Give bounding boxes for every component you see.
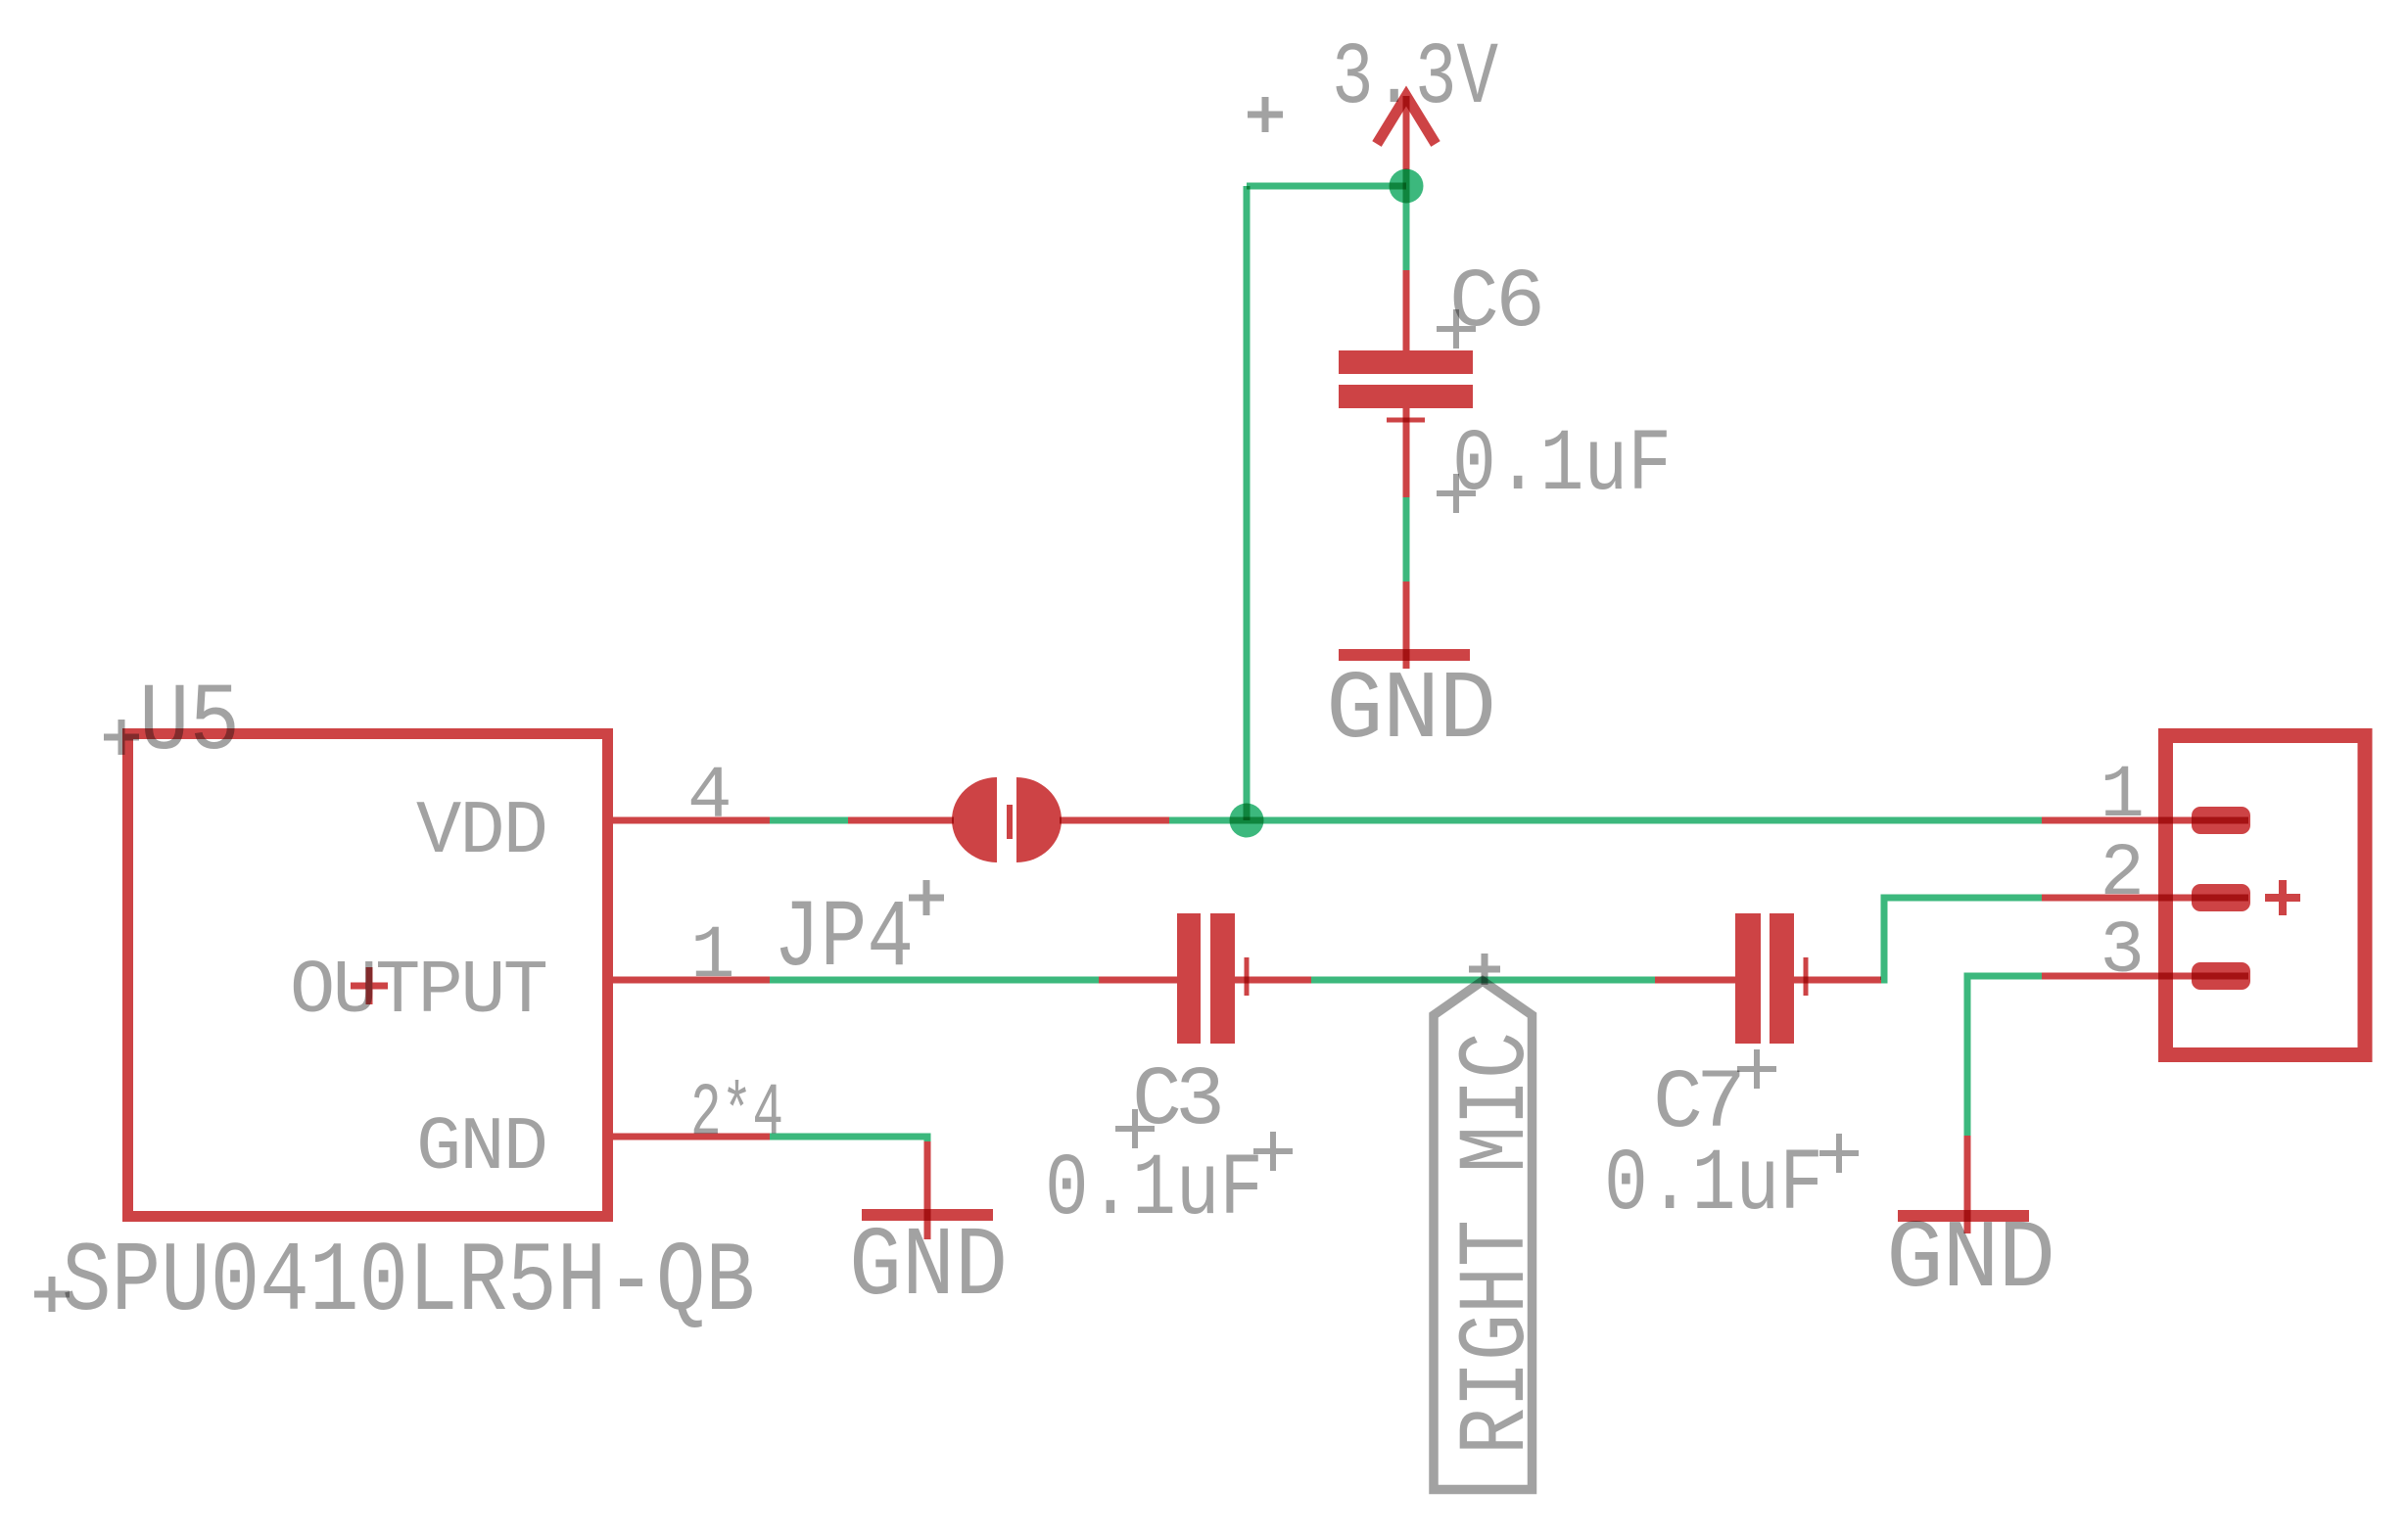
capacitor C3 plate 2: [1210, 913, 1235, 1044]
GND symbol bar (right): [1898, 1210, 2029, 1222]
capacitor C7 right pin: [1794, 977, 1881, 984]
connector pin 2: [2042, 895, 2248, 902]
jumper JP4 pin 1: [848, 817, 954, 824]
C3 name origin cross: [1115, 1109, 1155, 1148]
svg-text:2*4: 2*4: [690, 1072, 783, 1156]
svg-text:1: 1: [690, 914, 735, 999]
capacitor C6 pin tick: [1387, 418, 1425, 423]
junction dot at 3.3V: [1390, 169, 1424, 204]
capacitor C7 pin tick: [1804, 957, 1809, 996]
JP4 origin cross: [909, 880, 944, 915]
capacitor C7 left pin: [1655, 977, 1735, 984]
3.3V supply arrow: [1377, 96, 1436, 144]
C7 name origin cross: [1737, 1049, 1776, 1089]
net label origin cross: [1469, 954, 1500, 985]
GND symbol pin (C6): [1403, 581, 1410, 669]
junction dot on VDD row: [1230, 804, 1264, 838]
U5 value origin cross: [34, 1277, 70, 1312]
svg-text:GND: GND: [1326, 657, 1496, 766]
svg-text:C3: C3: [1132, 1053, 1225, 1148]
svg-text:3: 3: [2100, 909, 2145, 994]
capacitor C6 top pin: [1403, 270, 1410, 350]
svg-text:OUTPUT: OUTPUT: [290, 950, 548, 1035]
svg-text:GND: GND: [849, 1213, 1008, 1324]
C3 value origin cross: [1253, 1132, 1293, 1171]
net label RIGHT MIC flag: [1434, 981, 1533, 1490]
U5 pin 4 VDD: [613, 817, 770, 824]
C6 name origin cross: [1437, 309, 1476, 349]
U5 pin 1 OUTPUT: [613, 977, 770, 984]
svg-text:VDD: VDD: [416, 790, 548, 875]
U5 part origin cross: [351, 967, 388, 1004]
capacitor C3 left pin: [1099, 977, 1177, 984]
IC U5 box: [128, 734, 608, 1217]
connector box: [2166, 736, 2366, 1055]
3.3V supply stem: [1403, 96, 1410, 169]
svg-text:RIGHT MIC: RIGHT MIC: [1444, 1032, 1552, 1455]
connector pad 3: [2192, 962, 2250, 990]
wire C7 up to pin 2 row: [1881, 898, 2042, 980]
svg-text:2: 2: [2100, 832, 2145, 916]
capacitor C6 bottom pin: [1403, 408, 1410, 497]
capacitor C7 plate 2: [1770, 913, 1794, 1044]
svg-text:GND: GND: [1886, 1206, 2055, 1315]
U5 name origin cross: [104, 720, 139, 755]
capacitor C6 plate 2: [1339, 385, 1473, 408]
svg-text:0.1uF: 0.1uF: [1604, 1136, 1823, 1235]
connector pin 3: [2042, 973, 2248, 980]
wire VDD riser: [1244, 186, 1251, 820]
capacitor C6 plate 1: [1339, 350, 1473, 374]
svg-text:0.1uF: 0.1uF: [1452, 416, 1672, 516]
jumper JP4 center tick: [1007, 805, 1013, 839]
svg-text:3.3V: 3.3V: [1332, 29, 1498, 129]
wire C3 to C7: [1311, 977, 1655, 984]
wire VDD top horizontal: [1247, 183, 1406, 190]
GND symbol bar (C6): [1339, 649, 1470, 661]
svg-text:GND: GND: [416, 1106, 548, 1191]
wire pin3 to GND corner: [1967, 976, 2042, 1136]
jumper JP4 right half-disc: [1016, 777, 1062, 862]
GND symbol bar (U5): [862, 1209, 993, 1221]
wire pin 2*4 to GND corner: [770, 1137, 927, 1141]
connector pad 1: [2192, 807, 2250, 834]
wire pin1 to C3: [770, 977, 1099, 984]
U5 pin 2*4 GND: [613, 1134, 770, 1140]
wire pin4 to JP4: [770, 817, 848, 824]
capacitor C3 plate 1: [1177, 913, 1201, 1044]
wire C6 to GND symbol: [1403, 497, 1410, 581]
GND symbol pin (U5): [924, 1141, 931, 1239]
capacitor C7 plate 1: [1735, 913, 1761, 1044]
connector pad 2: [2192, 884, 2250, 911]
svg-text:U5: U5: [139, 670, 240, 777]
capacitor C3 right pin: [1235, 977, 1311, 984]
svg-text:4: 4: [687, 755, 732, 839]
C7 value origin cross: [1819, 1134, 1859, 1173]
connector plus mark: [2265, 880, 2300, 915]
GND symbol pin (right): [1964, 1136, 1971, 1233]
C6 value origin cross: [1437, 474, 1476, 513]
wire JP4 to connector pin 1: [1169, 817, 2042, 824]
wire junction to C6: [1403, 186, 1410, 270]
svg-text:C6: C6: [1449, 256, 1545, 350]
jumper JP4 pin 2: [1060, 817, 1169, 824]
capacitor C3 pin tick: [1245, 957, 1250, 996]
svg-text:SPU0410LR5H-QB: SPU0410LR5H-QB: [62, 1228, 755, 1339]
jumper JP4 left half-disc: [952, 777, 997, 862]
svg-text:0.1uF: 0.1uF: [1045, 1140, 1263, 1240]
wire stub to junction: [1403, 169, 1410, 186]
svg-text:1: 1: [2100, 754, 2145, 838]
3.3V origin cross: [1248, 97, 1283, 132]
connector pin 1: [2042, 817, 2248, 824]
